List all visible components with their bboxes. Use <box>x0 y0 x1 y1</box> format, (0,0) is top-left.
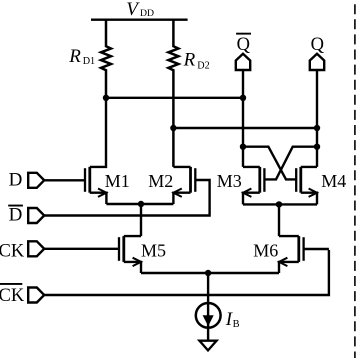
svg-text:V: V <box>126 0 140 20</box>
transistor M1 <box>85 98 130 204</box>
svg-text:D: D <box>9 204 23 225</box>
current source IB <box>196 273 240 341</box>
svg-text:D2: D2 <box>197 60 209 71</box>
svg-text:M6: M6 <box>253 241 278 261</box>
wire M3-M4 common source <box>243 203 317 205</box>
wire M1-M2 common source <box>106 203 173 205</box>
svg-text:M1: M1 <box>105 171 130 191</box>
wire cross-couple from node Y to M3 gate <box>264 147 317 180</box>
wire D to M1 gate <box>44 179 84 181</box>
node VDD label <box>126 0 154 20</box>
wire Qbar vertical <box>242 70 244 167</box>
svg-text:M4: M4 <box>321 171 346 191</box>
resistor RD2 <box>168 20 209 167</box>
wire node Y horizontal (RD2 bottom to Q branch) <box>173 127 317 129</box>
transistor M3 <box>217 167 265 205</box>
junction dot cross-couple left <box>240 144 246 150</box>
wire M5-M6 common source tail <box>141 272 279 274</box>
dashed page border <box>354 0 356 358</box>
svg-text:CK: CK <box>0 241 25 261</box>
junction dot cross-couple right <box>314 144 320 150</box>
svg-text:Q: Q <box>311 35 325 55</box>
svg-text:Q: Q <box>237 35 251 55</box>
output port Q <box>310 35 325 70</box>
transistor M2 <box>148 167 195 204</box>
svg-text:D: D <box>9 170 23 191</box>
wire CK to M5 gate <box>44 248 118 250</box>
svg-text:D1: D1 <box>83 56 95 67</box>
junction dot M3-M4 tail <box>276 201 282 207</box>
junction dot node Y at Q <box>314 125 320 131</box>
junction dot node X at RD1 <box>103 95 109 101</box>
wire Q vertical <box>316 70 318 167</box>
junction dot current source tail <box>205 270 211 276</box>
output port Qbar <box>236 33 251 70</box>
svg-text:M2: M2 <box>148 171 173 191</box>
junction dot node Y at RD2 <box>170 125 176 131</box>
wire tail to M6 drain <box>278 204 280 236</box>
wire CKbar to M6 gate riser <box>44 250 329 295</box>
svg-text:B: B <box>233 319 240 330</box>
input port CKbar <box>0 283 44 306</box>
svg-text:R: R <box>68 46 81 67</box>
input port D <box>9 170 45 191</box>
svg-text:R: R <box>183 49 196 70</box>
resistor RD1 <box>68 20 111 98</box>
wire tail to M5 drain <box>140 204 142 236</box>
svg-text:CK: CK <box>0 286 25 306</box>
VDD rail <box>91 19 188 21</box>
svg-text:M3: M3 <box>217 171 242 191</box>
wire node X horizontal (RD1 bottom to Q-bar branch) <box>106 97 243 99</box>
svg-text:DD: DD <box>140 8 154 19</box>
input port CK <box>0 241 44 261</box>
ground <box>199 341 216 351</box>
svg-text:M5: M5 <box>141 241 166 261</box>
transistor M6 <box>253 236 329 273</box>
transistor M4 <box>296 167 346 205</box>
input port Dbar <box>8 204 44 225</box>
wire cross-couple from node X to M4 gate <box>243 147 296 180</box>
wire Dbar to M2 gate riser <box>44 180 209 216</box>
junction dot node X at Qbar <box>240 95 246 101</box>
junction dot M1-M2 tail <box>138 201 144 207</box>
transistor M5 <box>119 236 166 273</box>
